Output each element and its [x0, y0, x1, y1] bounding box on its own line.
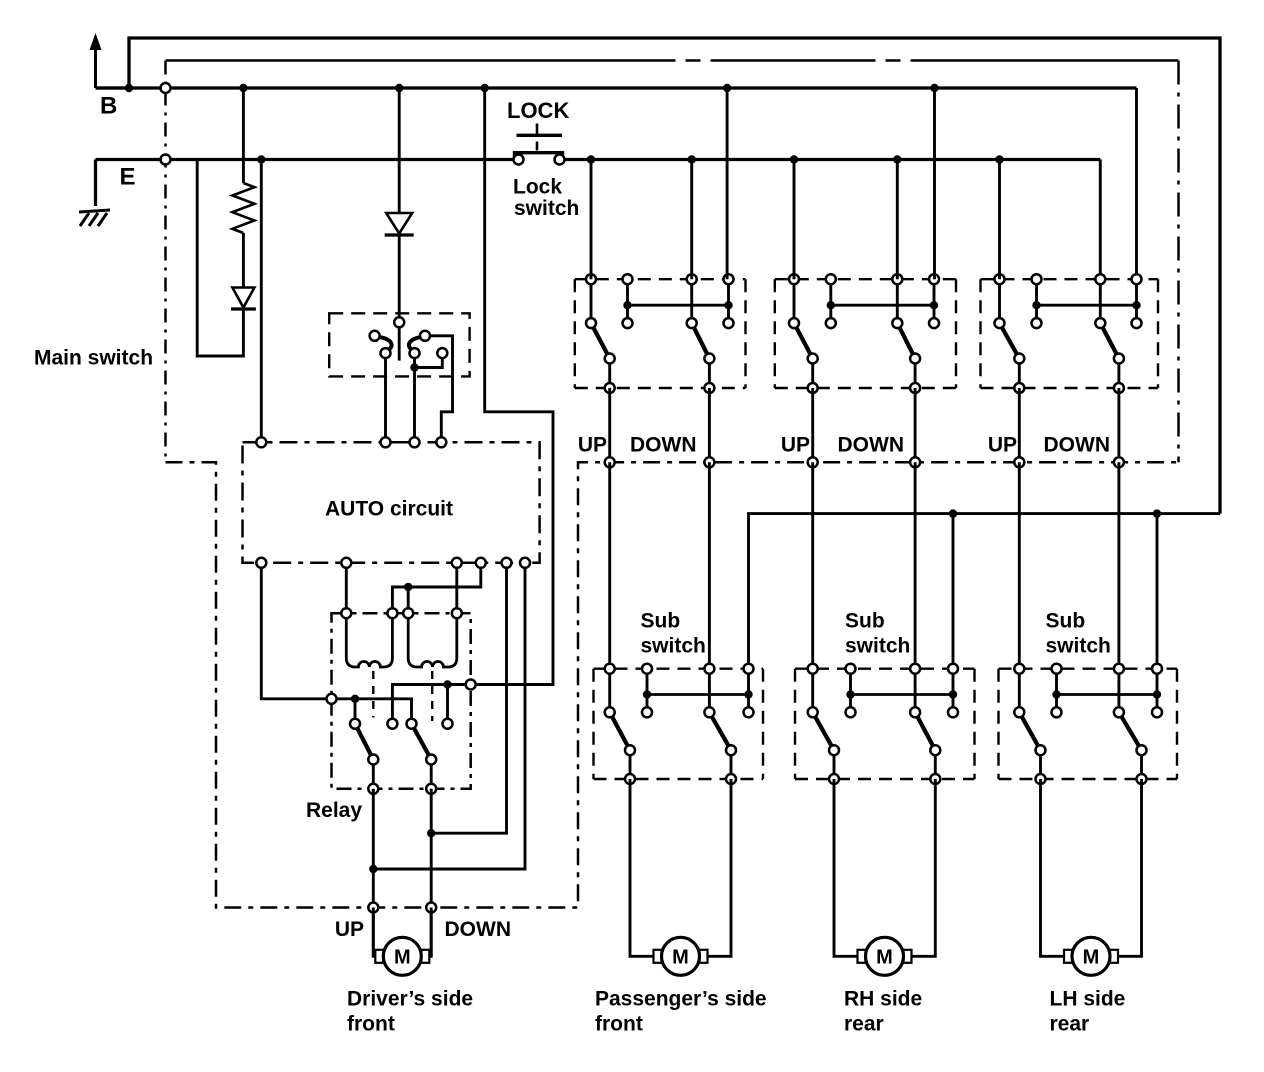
- window switch 2 (RH rear) switch arm DOWN: [897, 323, 915, 358]
- wire M2 (passenger front) right lead: [707, 779, 731, 956]
- window switch 3 (LH rear) wire terminal4 to bus: [1135, 279, 1138, 323]
- sub switch 2 (RH rear) bus junction right: [949, 690, 957, 698]
- window switch 2 (RH rear) moving contact 2: [910, 354, 920, 364]
- node E auto-circuit junction: [257, 155, 265, 163]
- svg-text:RH side: RH side: [844, 988, 922, 1011]
- auto switch arm B (curved): [409, 337, 421, 350]
- window switch 3 (LH rear) wire contact1 to bottom: [1018, 359, 1021, 389]
- sub switch 2 (RH rear) moving contact 2: [930, 745, 940, 755]
- window switch 3 (LH rear) wire terminal2 to bus: [1035, 279, 1038, 323]
- sub switch 3 (LH rear) pivot contact 1: [1014, 707, 1024, 717]
- wire E to ground: [94, 160, 97, 207]
- sub switch 2 (RH rear) bottom terminal 1: [829, 774, 839, 784]
- wire switch output at x=915.1 to boundary: [914, 388, 917, 462]
- wire resistor branch from B: [242, 88, 245, 183]
- wire relay1 to driver motor UP: [372, 789, 375, 957]
- svg-text:LOCK: LOCK: [507, 98, 569, 123]
- wire switch output at x=709.4 to boundary: [708, 388, 711, 462]
- svg-text:Passenger’s side: Passenger’s side: [595, 988, 767, 1011]
- wire B line corner down to switch3 terminal4: [1135, 88, 1138, 279]
- window switch 2 (RH rear) bus stub contact 2: [929, 318, 939, 328]
- wire distribution to sub switch 3 t4: [1156, 514, 1159, 669]
- sub switch 3 (LH rear) wire terminal3 to pivot2: [1117, 669, 1120, 713]
- window switch 3 (LH rear) terminal 1: [995, 274, 1005, 284]
- motor M3 (RH rear): [858, 937, 912, 975]
- window switch 2 (RH rear) bottom terminal 2: [910, 383, 920, 393]
- AUTO circuit dash-dot enclosure: [243, 442, 540, 563]
- sub switch 2 (RH rear) terminal 3: [910, 664, 920, 674]
- relay coil1 terminal left: [341, 608, 351, 618]
- sub switch 2 (RH rear) bus wire: [851, 693, 954, 696]
- window switch 3 (LH rear) wire contact2 to bottom: [1117, 359, 1120, 389]
- sub switch 2 (RH rear) wire terminal1 to pivot1: [811, 669, 814, 713]
- wire E to AUTO circuit pin1: [260, 160, 263, 443]
- window switch 3 (LH rear) terminal 4: [1132, 274, 1142, 284]
- svg-text:UP: UP: [335, 918, 364, 941]
- boundary terminal at x=709.4: [704, 457, 714, 467]
- node E switch2-t1 junction: [790, 155, 798, 163]
- wire driver motor right lead: [429, 908, 431, 957]
- wire AUTO pin5 down to relay common feed: [261, 563, 331, 699]
- wire E line left of lock switch: [96, 158, 518, 161]
- sub switch 3 (LH rear) bottom terminal 1: [1036, 774, 1046, 784]
- window switch 1 (passenger) dashed enclosure: [575, 279, 746, 388]
- boundary terminal on E line: [161, 155, 171, 165]
- window switch 1 (passenger) wire contact2 to bottom: [708, 359, 711, 389]
- wire auto switch pivot B down to AUTO circuit: [413, 353, 416, 442]
- sub switch 1 (passenger) terminal 3: [704, 664, 714, 674]
- wire M4 (LH rear) left lead: [1041, 779, 1065, 956]
- sub switch 2 (RH rear) moving contact 1: [829, 745, 839, 755]
- window switch 3 (LH rear) bus wire: [1037, 304, 1137, 307]
- wire E line corner down to switch3 terminal3: [1099, 160, 1102, 280]
- sub switch 1 (passenger) wire contact1 to bottom: [629, 750, 632, 779]
- wire relay contact1 to bottom: [372, 760, 375, 789]
- relay NO contact 1: [387, 719, 397, 729]
- sub switch 2 (RH rear) wire contact1 to bottom: [833, 750, 836, 779]
- boundary terminal at x=609.7: [605, 457, 615, 467]
- window switch 2 (RH rear) wire contact2 to bottom: [914, 359, 917, 389]
- sub switch 2 (RH rear) wire terminal4 to bus: [952, 669, 955, 713]
- sub switch 3 (LH rear) switch arm UP: [1019, 712, 1040, 750]
- sub switch 2 (RH rear) dashed enclosure: [795, 669, 975, 779]
- window switch 3 (LH rear) bottom terminal 1: [1014, 383, 1024, 393]
- sub switch 2 (RH rear) pivot contact 2: [910, 707, 920, 717]
- auto switch stationary contact right: [437, 348, 447, 358]
- lock switch terminal right: [555, 155, 565, 165]
- boundary terminal at x=1118.9: [1114, 457, 1124, 467]
- sub switch 2 (RH rear) bottom terminal 2: [930, 774, 940, 784]
- svg-text:switch: switch: [845, 635, 910, 658]
- sub switch 2 (RH rear) terminal 2: [846, 664, 856, 674]
- svg-text:rear: rear: [844, 1013, 884, 1036]
- AUTO circuit bottom pin 2: [341, 558, 351, 568]
- wire auto switch stationary contact to pivot-B net: [415, 353, 443, 367]
- AUTO circuit top pin 3: [410, 437, 420, 447]
- sub switch 2 (RH rear) switch arm UP: [813, 712, 834, 750]
- sub switch 3 (LH rear) wire terminal4 to bus: [1156, 669, 1159, 713]
- svg-text:front: front: [595, 1013, 643, 1036]
- wire boundary to sub switch terminal at x=709.4: [708, 462, 711, 668]
- svg-text:rear: rear: [1050, 1013, 1090, 1036]
- window switch 2 (RH rear) bottom terminal 1: [808, 383, 818, 393]
- sub switch 1 (passenger) bottom terminal 2: [726, 774, 736, 784]
- sub switch 1 (passenger) terminal 2: [642, 664, 652, 674]
- node distribution to sub2: [949, 509, 957, 517]
- node B supply arrow: [90, 33, 102, 88]
- window switch 3 (LH rear) bus junction right: [1132, 301, 1140, 309]
- relay dash-dot enclosure: [332, 613, 471, 789]
- auto switch arm A (curved): [380, 337, 392, 350]
- wire auto switch B to upper-right contact: [425, 336, 453, 443]
- sub switch 3 (LH rear) wire terminal1 to pivot1: [1018, 669, 1021, 713]
- sub switch 1 (passenger) bus stub contact 2: [744, 707, 754, 717]
- sub switch 1 (passenger) moving contact 2: [726, 745, 736, 755]
- wire E to switch1 t3: [690, 160, 693, 280]
- wire M4 (LH rear) right lead: [1118, 779, 1142, 956]
- wire relay2 to driver motor DOWN: [430, 789, 433, 957]
- main switch boundary (dash-dot enclosure): [166, 61, 1179, 908]
- window switch 3 (LH rear) switch arm UP: [1000, 323, 1020, 358]
- relay mechanical link 1 (dashed): [372, 671, 374, 718]
- window switch 3 (LH rear) wire terminal1 to pivot1: [998, 279, 1001, 323]
- node B switch1-t4 junction: [723, 84, 731, 92]
- sub switch 1 (passenger) wire terminal1 to pivot1: [608, 669, 611, 713]
- wire relay common feed to pivots: [332, 699, 412, 724]
- auto switch pivot B: [410, 348, 420, 358]
- diode D2: [385, 213, 414, 235]
- window switch 1 (passenger) wire contact1 to bottom: [608, 359, 611, 389]
- sub switch 3 (LH rear) terminal 1: [1014, 664, 1024, 674]
- wire relay contact2 to bottom: [430, 760, 433, 789]
- boundary terminal at x=1019.3: [1014, 457, 1024, 467]
- relay coil coil 1 (UP): [346, 617, 392, 667]
- wire boundary to sub switch terminal at x=1118.9: [1117, 462, 1120, 668]
- svg-text:Driver’s side: Driver’s side: [347, 988, 473, 1011]
- sub switch 1 (passenger) bottom terminal 1: [625, 774, 635, 784]
- lock switch push-button symbol: [515, 124, 563, 159]
- sub switch 1 (passenger) wire terminal2 to bus: [646, 669, 649, 713]
- sub switch 3 (LH rear) terminal 2: [1052, 664, 1062, 674]
- sub switch 3 (LH rear) bus stub contact 2: [1152, 707, 1162, 717]
- sub switch 3 (LH rear) bus junction right: [1153, 690, 1161, 698]
- wire stub to relay pivot1: [354, 699, 357, 724]
- window switch 1 (passenger) moving contact 1: [605, 354, 615, 364]
- wire E to switch1 t1: [590, 160, 593, 280]
- sub switch 1 (passenger) terminal 1: [605, 664, 615, 674]
- boundary terminal driver DOWN: [426, 903, 436, 913]
- window switch 3 (LH rear) bus stub contact 1: [1032, 318, 1042, 328]
- window switch 2 (RH rear) bus junction left: [827, 301, 835, 309]
- wire AUTO pin10 to motor UP net: [373, 563, 525, 869]
- window switch 1 (passenger) pivot contact 1: [586, 318, 596, 328]
- wire B to relay NO contacts (via right jog): [471, 88, 553, 685]
- window switch 1 (passenger) wire terminal2 to bus: [626, 279, 629, 323]
- window switch 1 (passenger) terminal 4: [724, 274, 734, 284]
- window switch 2 (RH rear) pivot contact 2: [892, 318, 902, 328]
- relay pivot 2: [407, 719, 417, 729]
- sub switch 1 (passenger) terminal 4: [744, 664, 754, 674]
- sub switch 1 (passenger) wire terminal4 to bus: [747, 669, 750, 713]
- window switch 3 (LH rear) pivot contact 1: [995, 318, 1005, 328]
- window switch 2 (RH rear) pivot contact 1: [789, 318, 799, 328]
- wire B line: [96, 86, 1137, 89]
- node distribution to sub3: [1153, 509, 1161, 517]
- sub switch 1 (passenger) wire contact2 to bottom: [730, 750, 733, 779]
- window switch 2 (RH rear) terminal 1: [789, 274, 799, 284]
- sub switch 3 (LH rear) terminal 4: [1152, 664, 1162, 674]
- AUTO circuit top pin 4: [436, 437, 446, 447]
- wire B to switch2 t4: [933, 88, 936, 279]
- sub switch 1 (passenger) bus junction right: [744, 690, 752, 698]
- wire stub to relay coil2 left: [407, 587, 410, 613]
- sub switch 2 (RH rear) switch arm DOWN: [915, 712, 935, 750]
- wire M2 (passenger front) left lead: [630, 779, 654, 956]
- window switch 2 (RH rear) dashed enclosure: [775, 279, 956, 388]
- wire B stub to first feeder: [96, 86, 130, 89]
- window switch 1 (passenger) bus junction right: [724, 301, 732, 309]
- boundary terminal driver UP: [368, 903, 378, 913]
- sub switch 3 (LH rear) bottom terminal 2: [1137, 774, 1147, 784]
- wire D1 to E line return: [197, 160, 243, 357]
- window switch 2 (RH rear) wire terminal4 to bus: [933, 279, 936, 323]
- AUTO circuit bottom pin 4: [476, 558, 486, 568]
- sub switch 1 (passenger) wire terminal3 to pivot2: [708, 669, 711, 713]
- window switch 2 (RH rear) terminal 3: [892, 274, 902, 284]
- wire M3 (RH rear) left lead: [834, 779, 858, 956]
- window switch 1 (passenger) bus stub contact 2: [724, 318, 734, 328]
- svg-text:DOWN: DOWN: [445, 918, 512, 941]
- sub switch 1 (passenger) dashed enclosure: [594, 669, 764, 779]
- svg-text:Sub: Sub: [641, 610, 681, 633]
- svg-text:Main switch: Main switch: [34, 347, 153, 370]
- sub switch 1 (passenger) pivot contact 1: [605, 707, 615, 717]
- sub switch 2 (RH rear) bus junction left: [846, 690, 854, 698]
- wire switch output at x=1019.3 to boundary: [1018, 388, 1021, 462]
- svg-text:switch: switch: [1046, 635, 1111, 658]
- svg-text:M: M: [394, 946, 411, 968]
- svg-text:Sub: Sub: [845, 610, 885, 633]
- window switch 1 (passenger) wire terminal1 to pivot1: [590, 279, 593, 323]
- svg-text:DOWN: DOWN: [630, 434, 697, 457]
- sub switch 2 (RH rear) bus stub contact 1: [846, 707, 856, 717]
- sub switch 1 (passenger) moving contact 1: [625, 745, 635, 755]
- svg-text:M: M: [1083, 946, 1100, 968]
- relay bottom terminal 1: [368, 784, 378, 794]
- svg-text:UP: UP: [781, 434, 810, 457]
- window switch 3 (LH rear) moving contact 2: [1114, 354, 1124, 364]
- sub switch 3 (LH rear) wire terminal2 to bus: [1055, 669, 1058, 713]
- svg-text:switch: switch: [641, 635, 706, 658]
- window switch 1 (passenger) terminal 1: [586, 274, 596, 284]
- AUTO circuit bottom pin 3: [452, 558, 462, 568]
- relay mechanical link 2 (dashed): [431, 671, 433, 721]
- sub switch 3 (LH rear) pivot contact 2: [1114, 707, 1124, 717]
- window switch 3 (LH rear) pivot contact 2: [1095, 318, 1105, 328]
- svg-text:LH side: LH side: [1050, 988, 1126, 1011]
- window switch 1 (passenger) bus junction left: [623, 301, 631, 309]
- svg-text:M: M: [672, 946, 689, 968]
- node E switch3-t1 junction: [995, 155, 1003, 163]
- wire relay NO-contact feed: [392, 685, 470, 724]
- auto switch contact A: [370, 331, 380, 341]
- relay coil2 terminal right: [452, 608, 462, 618]
- sub switch 3 (LH rear) bus wire: [1057, 693, 1158, 696]
- sub switch 2 (RH rear) wire terminal2 to bus: [849, 669, 852, 713]
- svg-text:DOWN: DOWN: [838, 434, 905, 457]
- relay coil1 terminal right: [387, 608, 397, 618]
- wire switch output at x=609.7 to boundary: [608, 388, 611, 462]
- relay moving contact 1: [368, 755, 378, 765]
- window switch 3 (LH rear) switch arm DOWN: [1100, 323, 1119, 358]
- relay coil2 terminal left: [403, 608, 413, 618]
- window switch 3 (LH rear) bottom terminal 2: [1114, 383, 1124, 393]
- node B relay-contact feed junction: [481, 84, 489, 92]
- sub switch 2 (RH rear) terminal 1: [808, 664, 818, 674]
- node E switch1-t3 junction: [688, 155, 696, 163]
- node UP net junction: [369, 865, 377, 873]
- svg-text:E: E: [120, 164, 136, 191]
- wire sub-switch B distribution line: [749, 514, 1221, 669]
- window switch 1 (passenger) terminal 3: [687, 274, 697, 284]
- svg-text:switch: switch: [514, 197, 579, 220]
- AUTO circuit bottom pin 6: [520, 558, 530, 568]
- svg-text:Sub: Sub: [1046, 610, 1086, 633]
- wire switch output at x=812.7 to boundary: [811, 388, 814, 462]
- wire AUTO pin9 to motor DOWN net: [431, 563, 506, 833]
- relay common feed terminal on box edge: [327, 694, 337, 704]
- window switch 2 (RH rear) bus stub contact 1: [826, 318, 836, 328]
- relay armature 1: [355, 724, 373, 760]
- node DOWN net junction: [427, 829, 435, 837]
- sub switch 1 (passenger) bus stub contact 1: [642, 707, 652, 717]
- wire switch output at x=1118.9 to boundary: [1117, 388, 1120, 462]
- relay armature 2: [412, 724, 432, 760]
- window switch 2 (RH rear) terminal 4: [929, 274, 939, 284]
- window switch 2 (RH rear) terminal 2: [826, 274, 836, 284]
- relay moving contact 2: [426, 755, 436, 765]
- AUTO circuit bottom pin 5: [502, 558, 512, 568]
- window switch 1 (passenger) pivot contact 2: [687, 318, 697, 328]
- sub switch 3 (LH rear) bus stub contact 1: [1052, 707, 1062, 717]
- wire B to switch1 t4: [726, 88, 729, 279]
- svg-text:M: M: [876, 946, 893, 968]
- relay coil coil 2 (DOWN): [408, 617, 457, 667]
- window switch 3 (LH rear) wire terminal3 to pivot2: [1099, 279, 1102, 323]
- wire AUTO pin6 to relay coil1 left: [345, 563, 348, 613]
- wire E to switch3 t1: [998, 160, 1001, 280]
- svg-text:DOWN: DOWN: [1044, 434, 1111, 457]
- window switch 1 (passenger) bottom terminal 2: [704, 383, 714, 393]
- wire boundary to sub switch terminal at x=812.7: [811, 462, 814, 668]
- window switch 1 (passenger) switch arm UP: [591, 323, 610, 358]
- wire AUTO pin7 to relay coil2 right: [455, 563, 458, 613]
- svg-text:B: B: [100, 93, 117, 120]
- motor M4 (LH rear): [1064, 937, 1118, 975]
- motor M1 (driver): [375, 937, 429, 975]
- relay NO feed terminal on box edge: [466, 680, 476, 690]
- sub switch 3 (LH rear) wire contact2 to bottom: [1140, 750, 1143, 779]
- boundary terminal at x=812.7: [808, 457, 818, 467]
- auto switch contact B: [420, 331, 430, 341]
- ground: [79, 210, 110, 226]
- auto switch input stub: [398, 322, 401, 360]
- sub switch 2 (RH rear) wire contact2 to bottom: [934, 750, 937, 779]
- window switch 3 (LH rear) terminal 3: [1095, 274, 1105, 284]
- node B feeder junction: [125, 84, 133, 92]
- relay bottom terminal 2: [426, 784, 436, 794]
- sub switch 1 (passenger) bus junction left: [643, 690, 651, 698]
- wire E to switch2 t3: [896, 160, 899, 280]
- motor M2 (passenger front): [654, 937, 708, 975]
- auto switch input terminal: [394, 317, 404, 327]
- sub switch 3 (LH rear) switch arm DOWN: [1119, 712, 1142, 750]
- boundary terminal on B line: [161, 83, 171, 93]
- boundary terminal at x=915.1: [910, 457, 920, 467]
- window switch 2 (RH rear) wire contact1 to bottom: [811, 359, 814, 389]
- node relay NO2 feed junction: [443, 680, 451, 688]
- lock switch terminal left: [514, 155, 524, 165]
- svg-text:front: front: [347, 1013, 395, 1036]
- auto switch dashed enclosure: [329, 313, 469, 376]
- sub switch 1 (passenger) bus wire: [647, 693, 749, 696]
- node relay pivot1 feed junction: [351, 695, 359, 703]
- window switch 2 (RH rear) moving contact 1: [808, 354, 818, 364]
- window switch 2 (RH rear) wire terminal1 to pivot1: [793, 279, 796, 323]
- wire M3 (RH rear) right lead: [911, 779, 935, 956]
- svg-text:Lock: Lock: [513, 176, 562, 199]
- sub switch 3 (LH rear) dashed enclosure: [999, 669, 1178, 779]
- window switch 2 (RH rear) switch arm UP: [794, 323, 813, 358]
- sub switch 3 (LH rear) moving contact 2: [1137, 745, 1147, 755]
- sub switch 2 (RH rear) bus stub contact 2: [948, 707, 958, 717]
- wire AUTO pin8 to relay coils mid feed: [392, 563, 480, 613]
- window switch 3 (LH rear) bus junction left: [1032, 301, 1040, 309]
- window switch 1 (passenger) switch arm DOWN: [692, 323, 710, 358]
- window switch 3 (LH rear) moving contact 1: [1014, 354, 1024, 364]
- sub switch 1 (passenger) switch arm UP: [610, 712, 630, 750]
- node E switch2-t3 junction: [893, 155, 901, 163]
- AUTO circuit top pin 1: [256, 437, 266, 447]
- window switch 2 (RH rear) bus junction right: [930, 301, 938, 309]
- relay NO contact 2: [443, 719, 453, 729]
- wire stub to relay NO contact 2: [446, 685, 449, 724]
- sub switch 3 (LH rear) moving contact 1: [1036, 745, 1046, 755]
- window switch 2 (RH rear) bus wire: [831, 304, 934, 307]
- window switch 1 (passenger) moving contact 2: [704, 354, 714, 364]
- sub switch 3 (LH rear) bus junction left: [1052, 690, 1060, 698]
- window switch 3 (LH rear) terminal 2: [1032, 274, 1042, 284]
- node auto switch contact junction: [410, 363, 418, 371]
- node B switch2-t4 junction: [930, 84, 938, 92]
- auto switch pivot A: [381, 348, 391, 358]
- sub switch 2 (RH rear) terminal 4: [948, 664, 958, 674]
- wire feeder line 1 (B to sub-switch distribution): [129, 38, 1220, 514]
- relay pivot 1: [350, 719, 360, 729]
- svg-text:UP: UP: [988, 434, 1017, 457]
- window switch 3 (LH rear) bus stub contact 2: [1132, 318, 1142, 328]
- sub switch 1 (passenger) switch arm DOWN: [709, 712, 731, 750]
- sub switch 2 (RH rear) wire terminal3 to pivot2: [914, 669, 917, 713]
- wire E line right of lock switch: [561, 158, 1101, 161]
- wire driver motor leads: [373, 908, 376, 957]
- node coil2-left feed junction: [404, 583, 412, 591]
- window switch 2 (RH rear) wire terminal3 to pivot2: [896, 279, 899, 323]
- node E switch1-t1 junction: [587, 155, 595, 163]
- wire D2 branch from B: [398, 88, 401, 213]
- wire E to switch2 t1: [793, 160, 796, 280]
- window switch 1 (passenger) bottom terminal 1: [605, 383, 615, 393]
